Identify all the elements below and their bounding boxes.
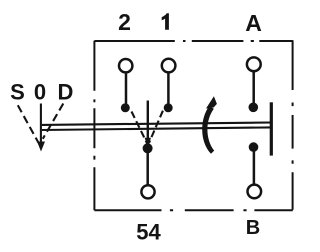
wire terminal 2 to contact xyxy=(125,73,128,105)
dashed travel line from contact 2 xyxy=(132,112,148,144)
terminal 2 circle xyxy=(119,59,132,72)
actuator shaft upper line xyxy=(42,123,271,125)
actuator shaft lower line xyxy=(42,127,271,130)
svg-text:54: 54 xyxy=(136,220,161,245)
dashed lever line position D xyxy=(43,104,64,139)
terminal label 1 xyxy=(162,13,169,30)
contact dot terminal A xyxy=(249,103,259,113)
lever arrow head position 0 xyxy=(37,142,45,152)
terminal B circle xyxy=(248,185,262,199)
contact dot terminal B xyxy=(249,142,259,152)
wire terminal B to contact xyxy=(253,149,256,185)
contact dot terminal 1 xyxy=(164,103,173,112)
dashed lever line position S xyxy=(18,105,39,143)
terminal 54 circle xyxy=(141,185,154,198)
terminal A circle xyxy=(247,57,261,71)
switch housing outline (dash-dot frame) xyxy=(94,40,292,210)
bridging contact blade xyxy=(270,102,273,155)
svg-text:S: S xyxy=(10,80,25,105)
svg-text:0: 0 xyxy=(34,80,46,105)
wire terminal 1 to contact xyxy=(167,73,170,105)
selector arrow head xyxy=(145,138,151,147)
svg-text:D: D xyxy=(58,80,74,105)
common contact dot (54) xyxy=(143,143,153,153)
rotation arrow head xyxy=(206,96,217,108)
wire terminal A to contact xyxy=(252,72,255,104)
wire terminal 54 to common contact xyxy=(146,150,149,185)
svg-text:A: A xyxy=(245,10,262,36)
svg-text:B: B xyxy=(246,217,260,239)
svg-text:2: 2 xyxy=(118,9,131,35)
contact dot terminal 2 xyxy=(121,103,130,112)
selector arrow shaft (position 0) xyxy=(147,101,149,141)
dashed travel line from contact 1 xyxy=(149,111,163,143)
lever line position 0 (solid) xyxy=(40,104,42,143)
terminal 1 circle xyxy=(162,59,176,73)
rotation arrow (curved) xyxy=(202,106,214,154)
